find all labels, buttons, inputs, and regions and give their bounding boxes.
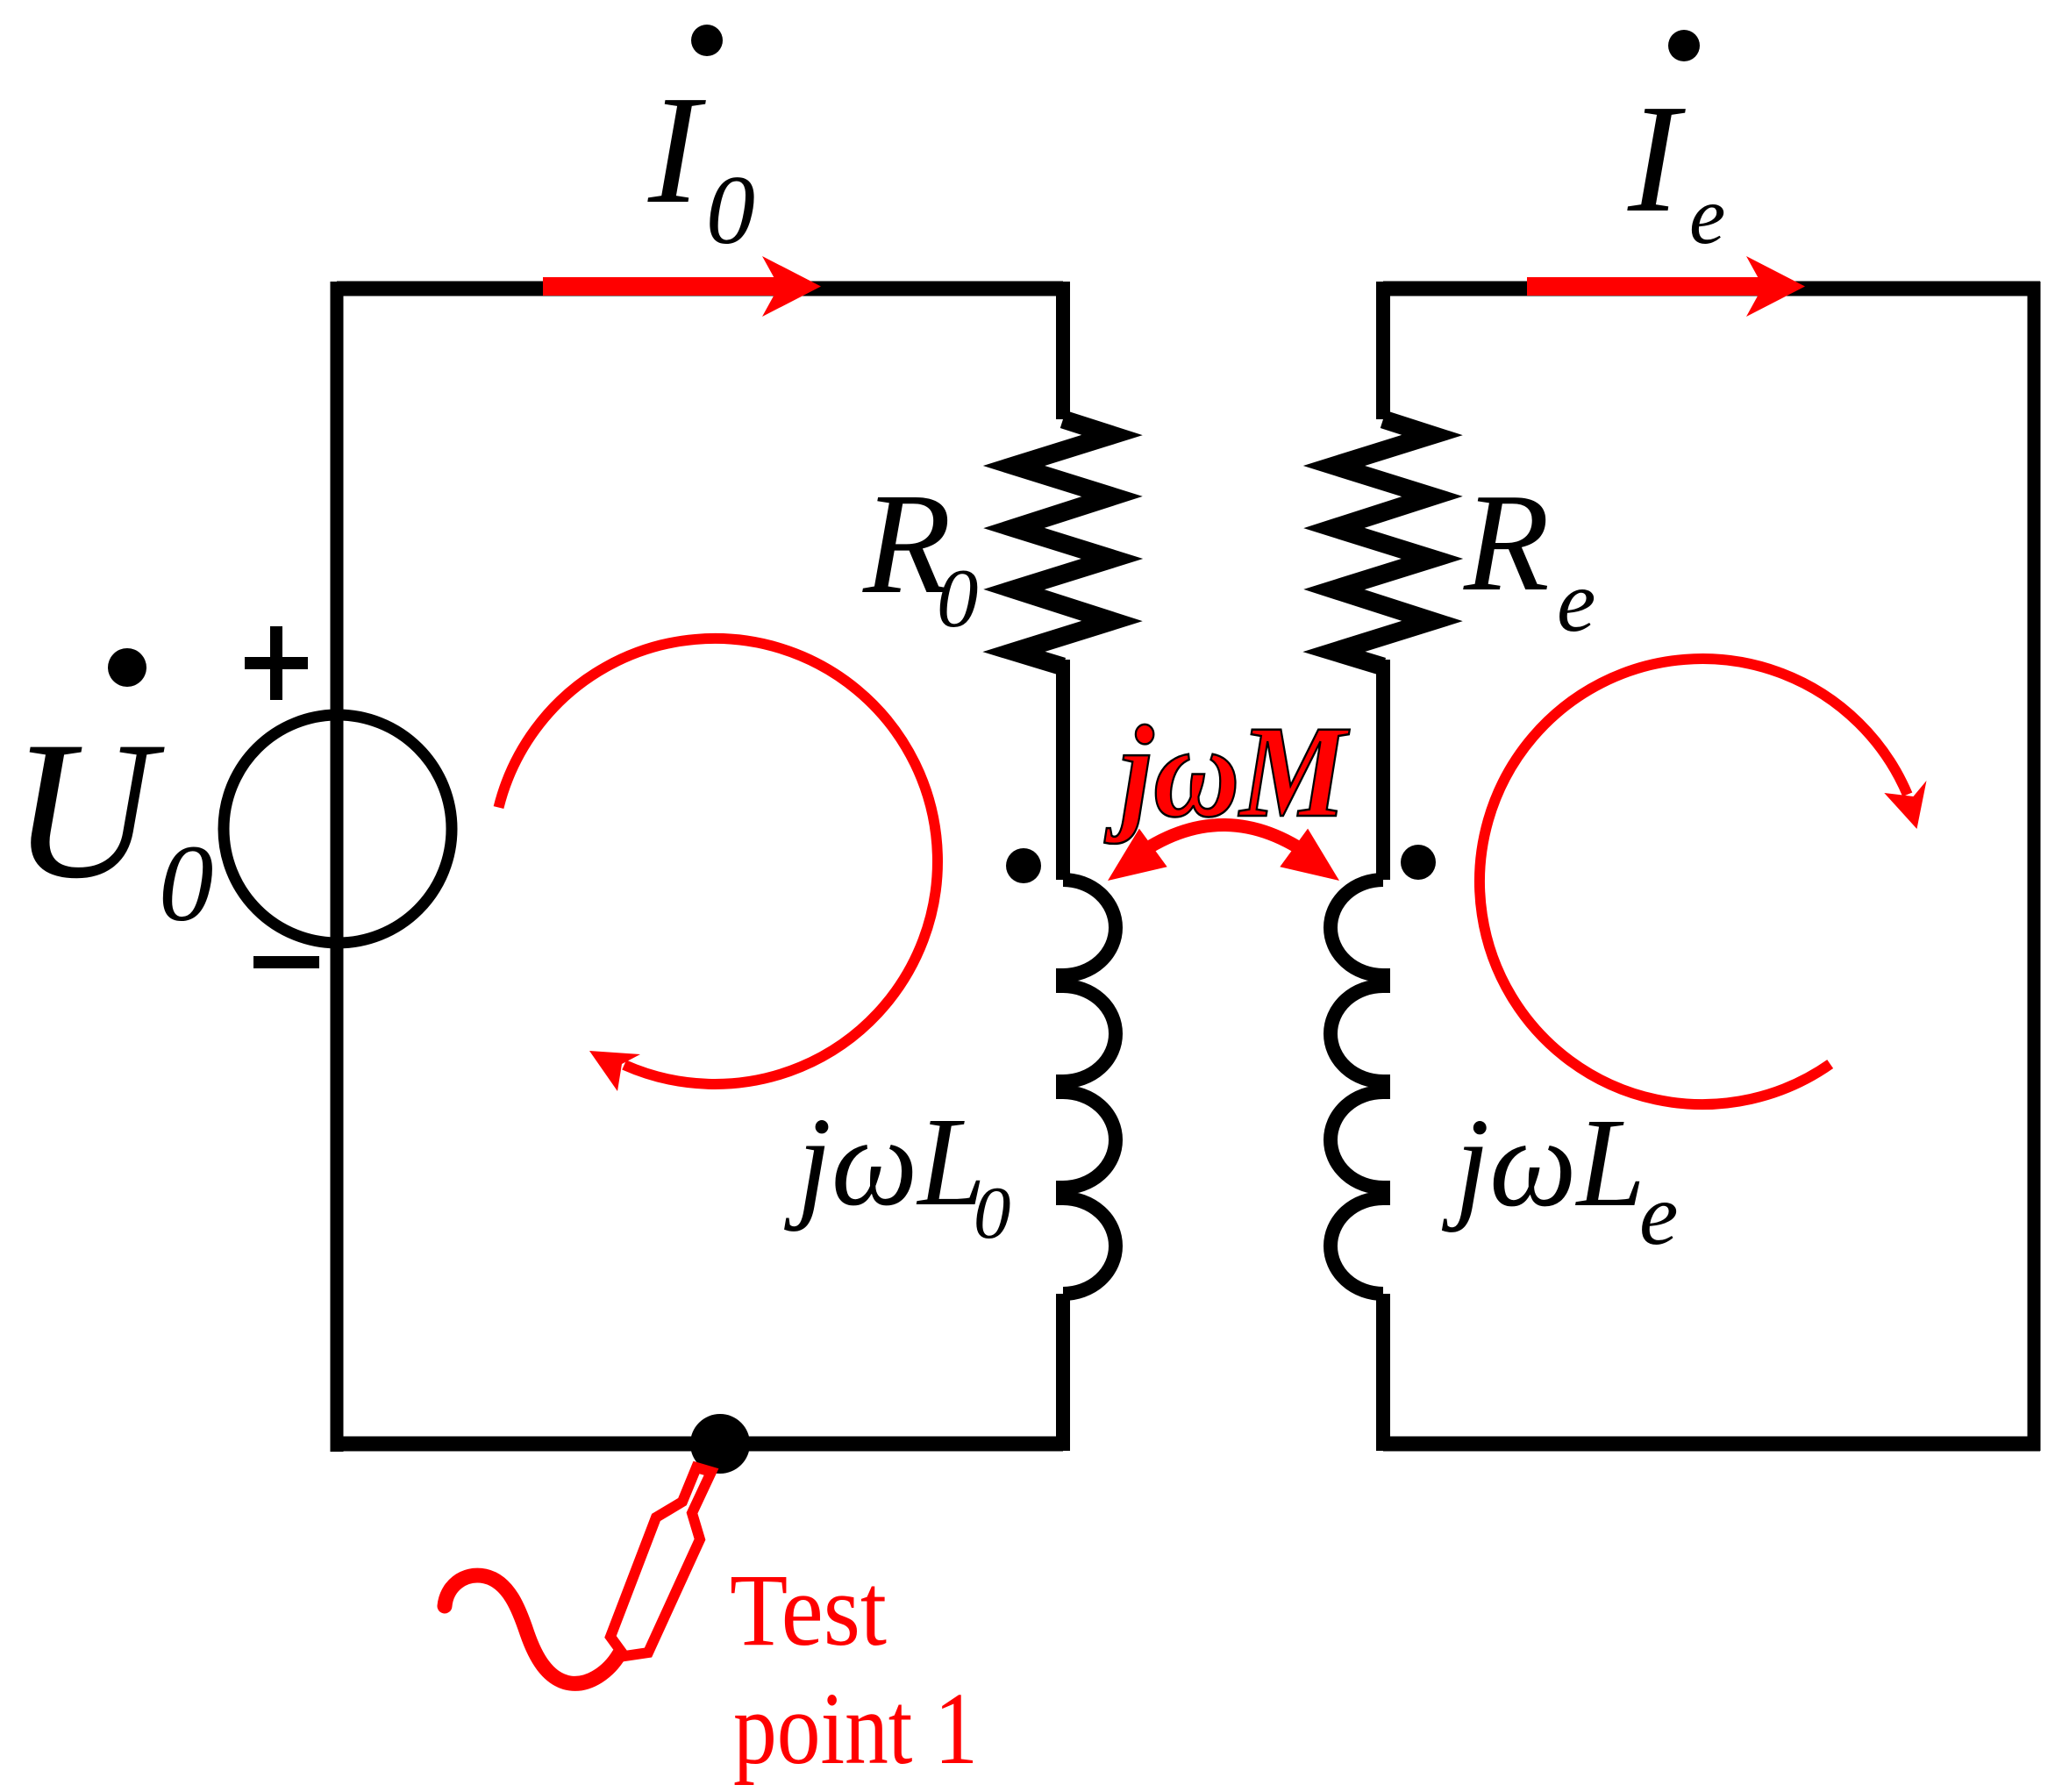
svg-text:e: e bbox=[1639, 1166, 1678, 1263]
svg-text:0: 0 bbox=[159, 824, 214, 945]
wire: left loop bottom bbox=[331, 1437, 1063, 1452]
svg-text:0: 0 bbox=[974, 1172, 1011, 1254]
resistor R0 bbox=[1014, 419, 1112, 667]
mutual coupling arrow jwM bbox=[1133, 825, 1314, 859]
polarity dot L0 bbox=[1006, 848, 1041, 883]
phasor dot above U0 bbox=[108, 648, 146, 687]
wire: right branch between Re and Le bbox=[1376, 660, 1390, 880]
wire: left branch between R0 and L0 bbox=[1056, 660, 1070, 880]
svg-text:I: I bbox=[1627, 73, 1686, 245]
resistor Re bbox=[1334, 419, 1432, 667]
inductor Le bbox=[1331, 880, 1383, 1294]
wire: right branch top segment (above Re) bbox=[1376, 282, 1390, 419]
wire: left loop left side bbox=[331, 282, 344, 1452]
test probe cable bbox=[445, 1575, 619, 1683]
wire: right loop bottom bbox=[1383, 1437, 2040, 1452]
minus sign bbox=[253, 956, 319, 968]
wire: right branch below Le bbox=[1376, 1294, 1390, 1451]
current arrow I0 bbox=[543, 277, 780, 296]
svg-text:R: R bbox=[1463, 464, 1550, 620]
svg-text:jωL: jωL bbox=[784, 1092, 986, 1232]
wire: right loop top bbox=[1383, 282, 2040, 296]
svg-text:0: 0 bbox=[706, 156, 755, 265]
current arrow Ie bbox=[1527, 277, 1764, 296]
wire: left branch below L0 bbox=[1056, 1294, 1070, 1451]
voltage source U0 circle bbox=[224, 715, 452, 943]
phasor dot above Ie bbox=[1668, 30, 1700, 61]
svg-text:0: 0 bbox=[937, 552, 979, 645]
svg-text:U: U bbox=[11, 700, 165, 919]
polarity dot Le bbox=[1401, 845, 1436, 880]
wire: left branch top segment (above R0) bbox=[1056, 282, 1070, 419]
wire: left loop top bbox=[337, 282, 1063, 296]
svg-text:I: I bbox=[647, 64, 706, 236]
inductor L0 bbox=[1063, 880, 1116, 1294]
test probe needle bbox=[610, 1467, 711, 1656]
plus sign bbox=[245, 626, 308, 700]
svg-text:Test: Test bbox=[730, 1553, 887, 1667]
mesh current arrow left loop bbox=[499, 639, 938, 1084]
wire: right loop right side bbox=[2028, 282, 2041, 1451]
node test point 1 bbox=[690, 1414, 750, 1474]
mesh current arrow right loop bbox=[1480, 659, 1908, 1104]
phasor dot above I0 bbox=[691, 25, 723, 56]
svg-text:e: e bbox=[1689, 171, 1725, 261]
svg-text:point 1: point 1 bbox=[733, 1671, 978, 1786]
svg-text:e: e bbox=[1557, 553, 1595, 650]
svg-text:jωL: jωL bbox=[1441, 1093, 1645, 1233]
